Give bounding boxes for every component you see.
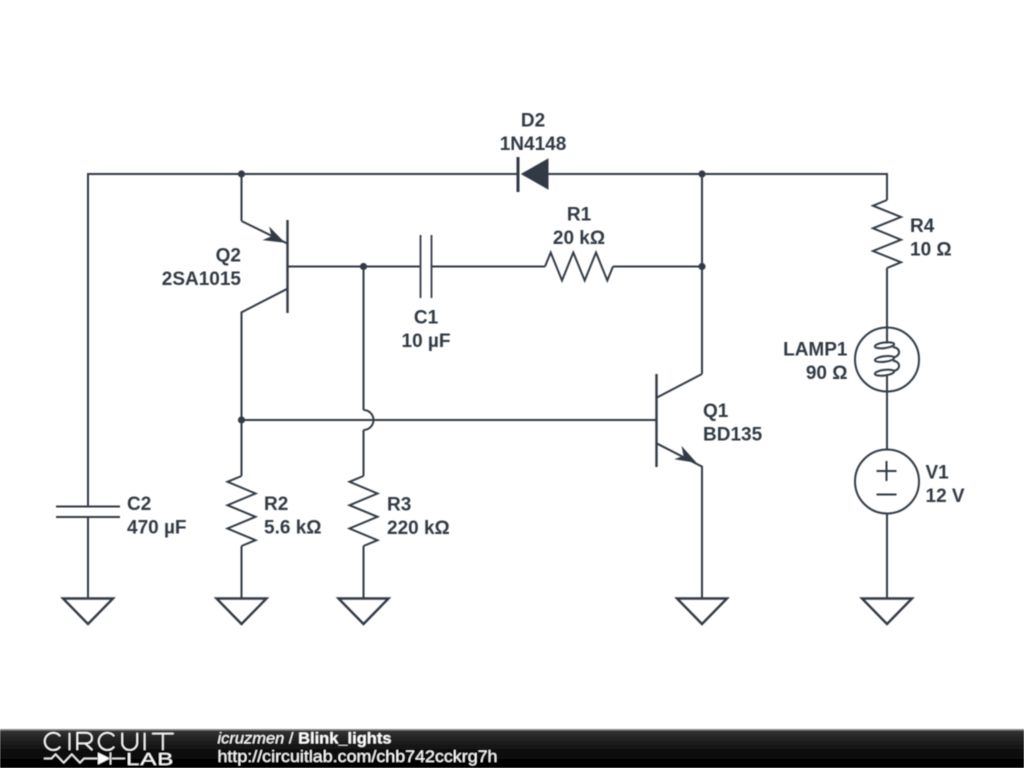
svg-text:2SA1015: 2SA1015 (162, 269, 242, 290)
svg-text:R1: R1 (567, 205, 592, 226)
svg-text:R3: R3 (387, 495, 411, 516)
svg-text:Q2: Q2 (216, 246, 241, 267)
svg-text:R4: R4 (910, 216, 935, 237)
svg-text:BD135: BD135 (703, 425, 763, 446)
svg-text:V1: V1 (926, 463, 950, 484)
svg-text:LAMP1: LAMP1 (783, 340, 848, 361)
svg-text:220 kΩ: 220 kΩ (387, 518, 450, 539)
svg-text:90 Ω: 90 Ω (806, 363, 848, 384)
svg-text:C1: C1 (414, 308, 439, 329)
svg-text:12 V: 12 V (926, 486, 965, 507)
svg-text:Q1: Q1 (703, 401, 729, 422)
svg-text:D2: D2 (521, 111, 545, 132)
svg-text:10 Ω: 10 Ω (910, 240, 952, 261)
svg-text:20 kΩ: 20 kΩ (553, 228, 605, 249)
svg-text:http://circuitlab.com/chb742cc: http://circuitlab.com/chb742cckrg7h (218, 747, 498, 766)
svg-text:R2: R2 (264, 494, 288, 515)
svg-text:5.6 kΩ: 5.6 kΩ (264, 518, 322, 539)
svg-text:LAB: LAB (126, 749, 174, 768)
svg-text:10 µF: 10 µF (402, 331, 451, 352)
svg-text:icruzmen / Blink_lights: icruzmen / Blink_lights (218, 731, 392, 748)
svg-text:470 µF: 470 µF (127, 518, 187, 539)
svg-text:C2: C2 (127, 494, 151, 515)
svg-text:1N4148: 1N4148 (500, 134, 567, 155)
